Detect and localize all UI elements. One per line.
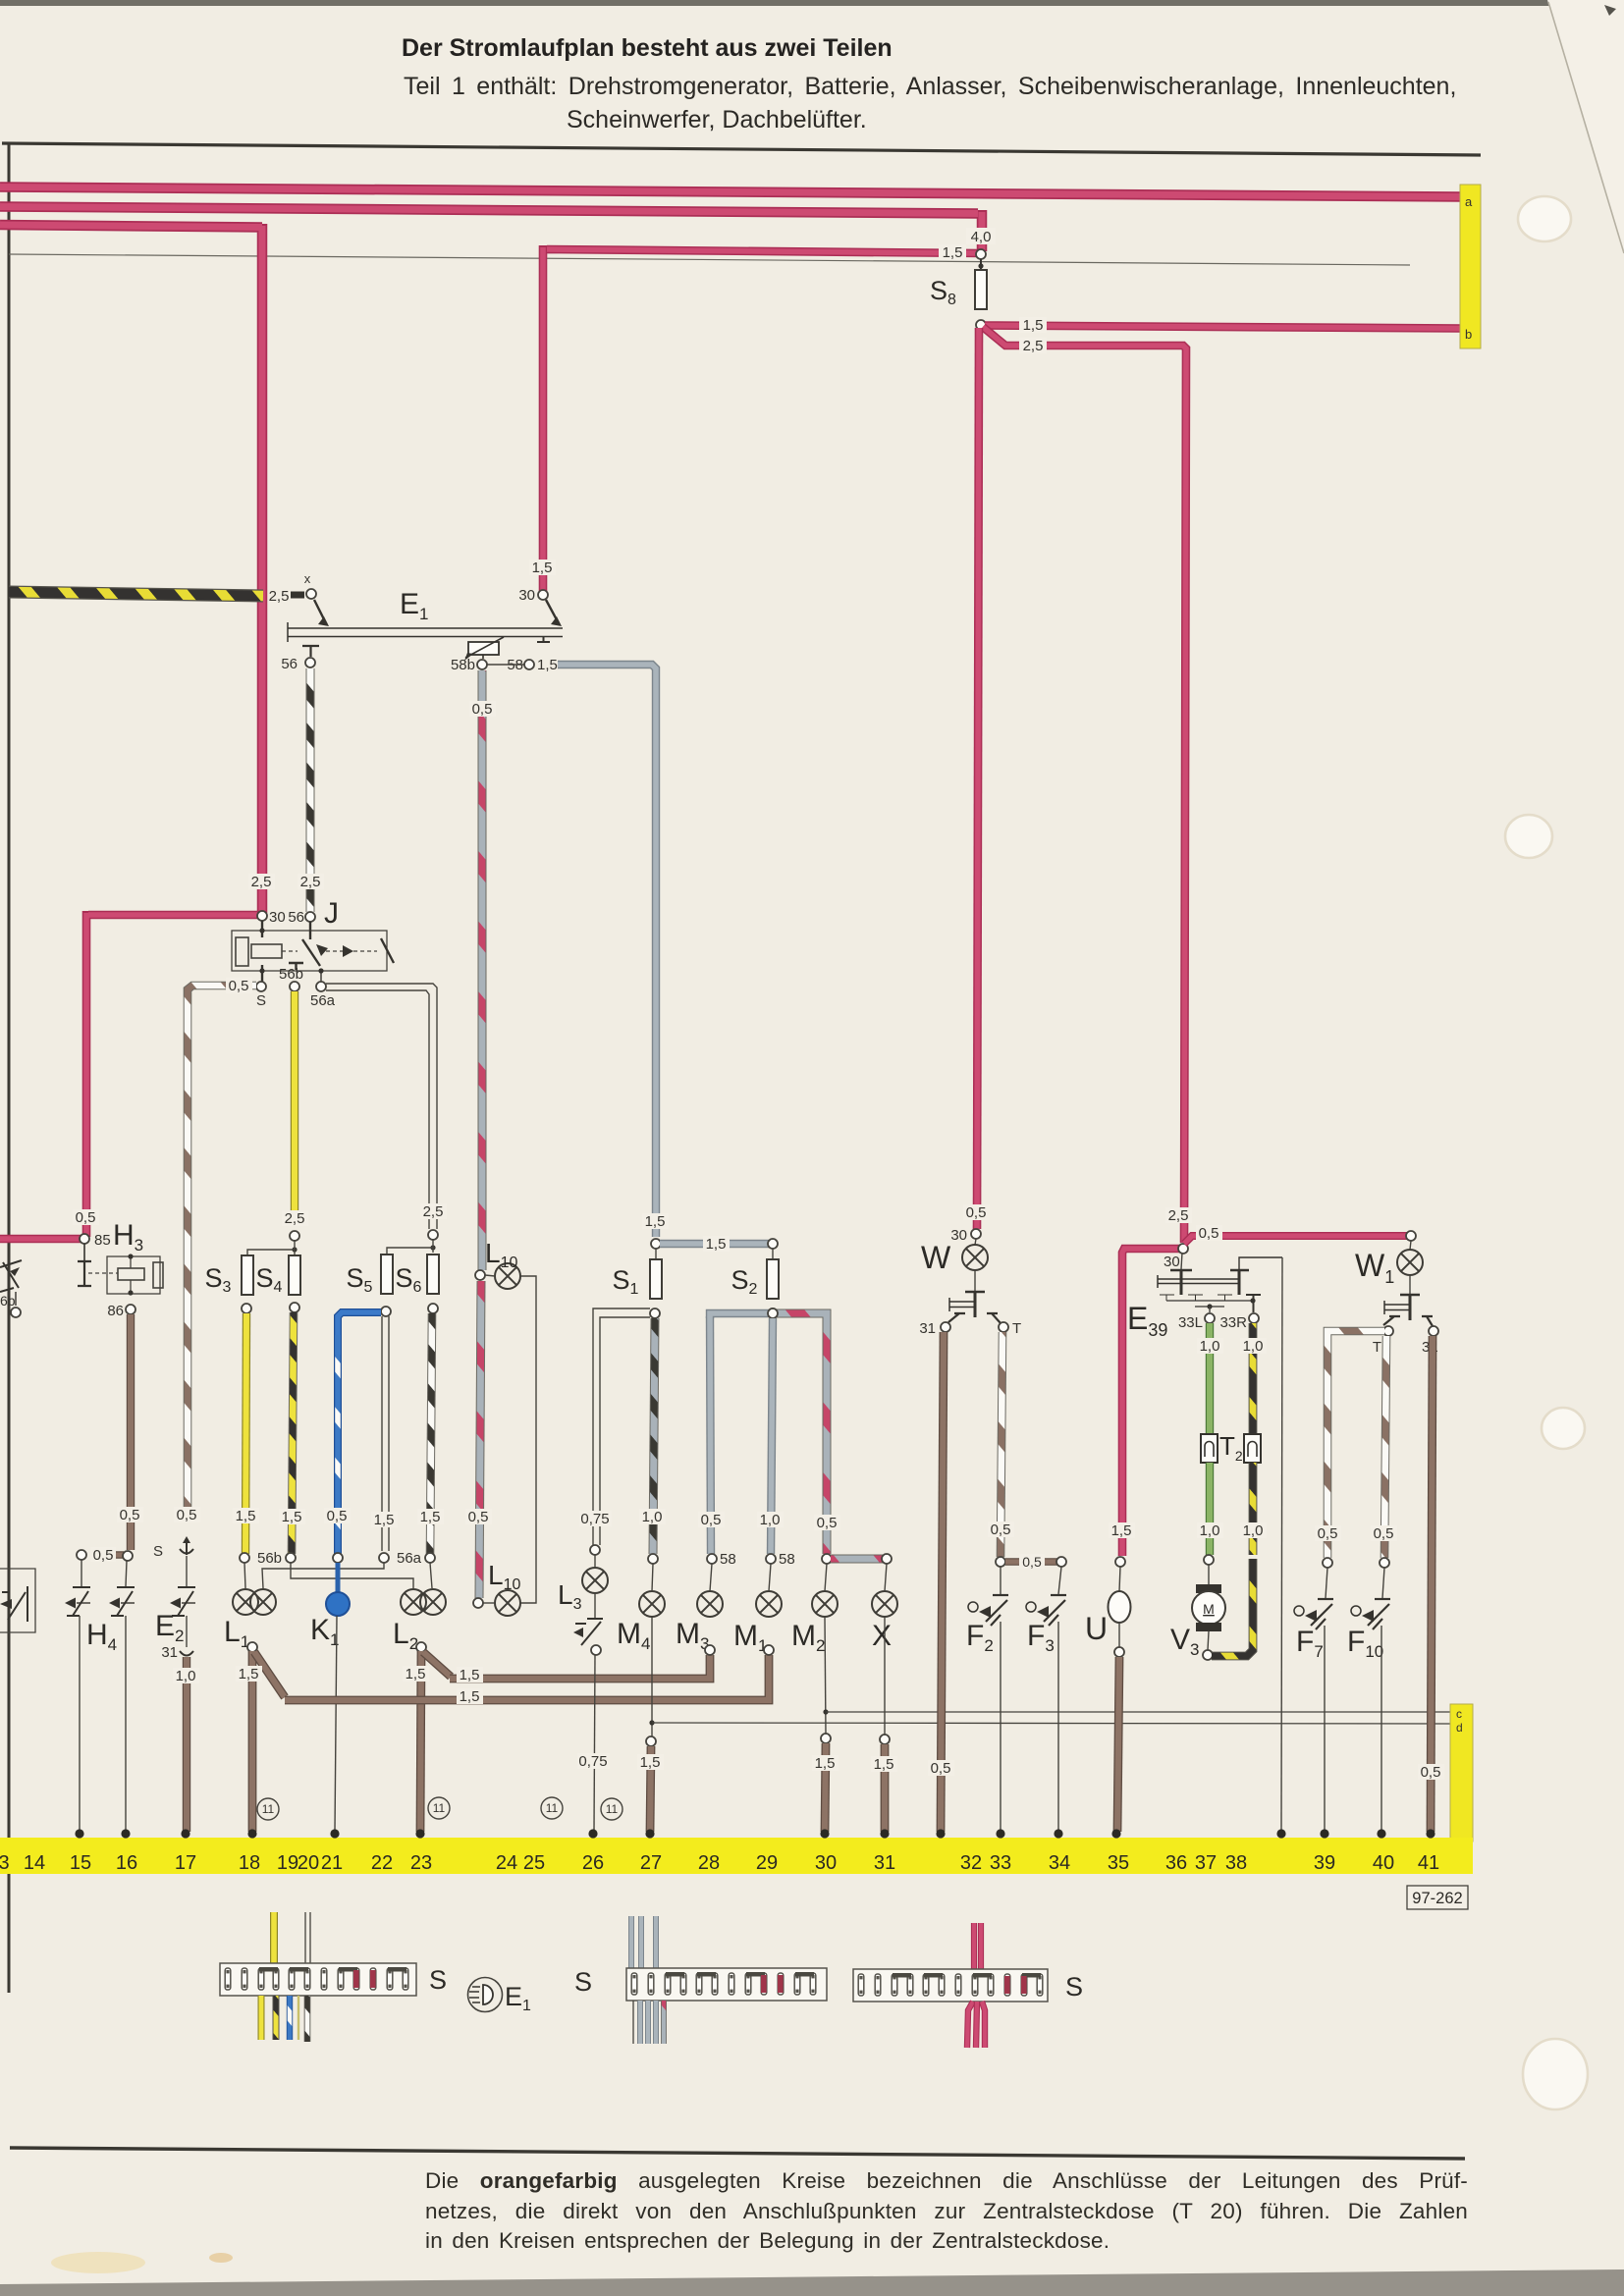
- switch W wiper park: [974, 1270, 976, 1291]
- svg-text:33L: 33L: [1178, 1314, 1203, 1331]
- lamp L10 upper: [475, 1270, 485, 1280]
- wire red 30 jog to J: [86, 911, 257, 1237]
- svg-text:S: S: [1065, 1972, 1083, 2002]
- contact 31 of E2: [186, 1616, 188, 1647]
- svg-text:56b: 56b: [257, 1550, 282, 1567]
- wire brown L1 slant to M1 line: [254, 1652, 285, 1697]
- svg-text:0,5: 0,5: [1022, 1554, 1042, 1570]
- fuse S4: [289, 1255, 300, 1295]
- switch fragment at page edge lower: [0, 1569, 35, 1632]
- wire grey-black striped S1 to M4: [653, 1318, 655, 1554]
- wire grey-red striped between L10s: [479, 1281, 481, 1598]
- bus bar yellow: [0, 1838, 1473, 1874]
- circled 11 markers: [257, 1798, 279, 1820]
- wire yellow-black striped below S4: [292, 1312, 294, 1554]
- svg-text:2,5: 2,5: [285, 1210, 305, 1227]
- wire brown L2 to rail 23: [420, 1651, 421, 1832]
- wire black-white striped 56 down to J: [306, 668, 315, 912]
- svg-text:17: 17: [175, 1852, 196, 1874]
- node 85 of H3: [80, 1234, 89, 1244]
- node above F2: [996, 1557, 1005, 1567]
- switch below L3: [594, 1593, 596, 1618]
- svg-text:U: U: [1085, 1611, 1108, 1646]
- terminal T of W1: [1383, 1326, 1393, 1336]
- node above F10: [1380, 1558, 1389, 1568]
- svg-text:6b: 6b: [0, 1293, 16, 1308]
- svg-text:32: 32: [960, 1852, 982, 1874]
- wire red bus B: [0, 207, 982, 252]
- node below X: [880, 1735, 890, 1744]
- wire thin K1 to rail 21: [335, 1616, 337, 1832]
- switch H4 right contact: [126, 1561, 127, 1586]
- svg-text:58: 58: [720, 1551, 736, 1568]
- label 0,75 above L3: [579, 1511, 612, 1527]
- node above F3: [1056, 1557, 1066, 1567]
- svg-text:14: 14: [24, 1852, 45, 1874]
- wire grey-red striped bar to M2: [777, 1313, 827, 1554]
- label 1,5 at S8 left: [939, 244, 966, 261]
- svg-text:21: 21: [321, 1852, 343, 1874]
- svg-text:33: 33: [990, 1852, 1011, 1874]
- wire red 85 feed from border: [0, 1235, 81, 1244]
- wire yellow-black below connector 1: [273, 1996, 280, 2040]
- wire white loop S1 to L3: [593, 1308, 650, 1545]
- svg-text:0,5: 0,5: [966, 1204, 987, 1221]
- svg-text:0,5: 0,5: [1318, 1525, 1338, 1542]
- label 1,5 at L1: [236, 1666, 262, 1682]
- terminal 31 of W1: [1429, 1326, 1438, 1336]
- scan bottom edge: [0, 2269, 1624, 2296]
- label 1,5 below M2: [812, 1755, 839, 1772]
- contact 58: [524, 660, 534, 669]
- svg-text:0,5: 0,5: [472, 701, 493, 718]
- fuse S5: [381, 1255, 393, 1294]
- svg-text:0,5: 0,5: [1374, 1525, 1394, 1542]
- fuse S2: [767, 1259, 779, 1299]
- label 1,5 above S1: [642, 1213, 669, 1230]
- wire brown W31 to rail 32: [941, 1332, 944, 1832]
- label 1,0 above M4: [639, 1509, 666, 1525]
- svg-text:37: 37: [1195, 1852, 1217, 1874]
- terminal above M2: [822, 1554, 832, 1564]
- svg-text:38: 38: [1225, 1852, 1247, 1874]
- svg-text:1,5: 1,5: [420, 1509, 441, 1525]
- contact 58b: [477, 660, 487, 669]
- svg-text:T: T: [1012, 1320, 1021, 1337]
- svg-text:c: c: [1456, 1707, 1462, 1721]
- thin bus reference line: [9, 254, 1410, 265]
- page left border line: [8, 143, 11, 1993]
- wire thin F2 to rail 33: [1000, 1622, 1001, 1832]
- wire thin c line to block: [826, 1711, 1450, 1713]
- svg-text:0,5: 0,5: [76, 1209, 96, 1226]
- wire thin F10 to rail 40: [1380, 1626, 1382, 1832]
- node above F7: [1323, 1558, 1332, 1568]
- label 1,5 below X: [871, 1756, 897, 1773]
- motor U: [1119, 1567, 1120, 1591]
- svg-text:b: b: [1465, 327, 1472, 342]
- svg-text:1,5: 1,5: [874, 1756, 894, 1773]
- label 0,5 on W31 wire: [928, 1760, 954, 1777]
- label 1,0 above M1: [757, 1512, 784, 1528]
- switch F7: [1326, 1568, 1327, 1598]
- svg-text:30: 30: [1164, 1254, 1180, 1270]
- rheostat E1 panel dimmer: [464, 636, 550, 661]
- label 1,0 above V3: [1197, 1522, 1223, 1539]
- wire brown L1 to rail 18: [248, 1651, 257, 1832]
- wire red 2,5 branch to right column: [983, 327, 1186, 1243]
- lamp M1: [756, 1591, 782, 1617]
- wire red 1,5 to terminal b: [985, 326, 1462, 329]
- label 0,5 on 58b wire: [469, 701, 496, 718]
- wire yellow below connector 1: [258, 1996, 265, 2040]
- wire white below S5: [382, 1316, 389, 1551]
- svg-text:Scheinwerfer, Dachbelüfter.: Scheinwerfer, Dachbelüfter.: [567, 106, 867, 133]
- svg-text:27: 27: [640, 1852, 662, 1874]
- svg-text:1,5: 1,5: [374, 1512, 395, 1528]
- wire thin d line to block: [652, 1723, 1450, 1724]
- svg-text:S: S: [256, 992, 266, 1009]
- node below M3: [705, 1645, 715, 1655]
- wire pale below connector 1: [298, 1996, 299, 2040]
- wire grey S1 to S2: [660, 1240, 769, 1248]
- label 0,5 above 85: [73, 1209, 99, 1226]
- wire blue-white below connector 1: [287, 1996, 293, 2040]
- svg-text:24: 24: [496, 1852, 517, 1874]
- motor V3: [1208, 1565, 1210, 1584]
- terminal T of W: [999, 1322, 1008, 1332]
- terminal 33L: [1205, 1313, 1215, 1323]
- wire brown M2 to rail 30: [825, 1743, 826, 1832]
- label 1,5 below S4: [279, 1509, 305, 1525]
- label 1,0 on lower 33R wire: [1240, 1522, 1267, 1539]
- relay J contacts: [262, 921, 394, 982]
- node below S1: [650, 1308, 660, 1318]
- wire white 56a loop to S5/S6: [326, 984, 437, 1229]
- terminal blue K1: [333, 1553, 343, 1563]
- svg-text:30: 30: [518, 587, 535, 604]
- label 1,5 below M4: [637, 1754, 664, 1771]
- wire grey S2-left to M3: [710, 1316, 711, 1554]
- svg-text:1,0: 1,0: [1200, 1338, 1220, 1355]
- svg-text:30: 30: [815, 1852, 837, 1874]
- wire yellow into connector 1: [270, 1912, 278, 1963]
- label 0,5 above F7: [1315, 1525, 1341, 1542]
- svg-text:20: 20: [298, 1852, 319, 1874]
- wire brown M4 to rail 27: [650, 1746, 651, 1832]
- entry node S4: [290, 1231, 299, 1241]
- label 0,5 above F2: [988, 1522, 1014, 1538]
- lamp M3: [697, 1591, 723, 1617]
- wire grey bundle into connector 2: [631, 1916, 656, 1968]
- svg-text:0,5: 0,5: [1199, 1225, 1219, 1242]
- svg-text:15: 15: [70, 1852, 91, 1874]
- wire thin F3 to rail 34: [1057, 1622, 1059, 1832]
- svg-text:a: a: [1465, 194, 1473, 209]
- node below L2: [416, 1642, 426, 1652]
- wire thin S4 to L1 right: [291, 1563, 413, 1588]
- label 1,5 above U: [1109, 1522, 1135, 1539]
- svg-text:1,5: 1,5: [532, 560, 553, 576]
- label 2,5 on red J feed: [248, 874, 275, 890]
- wire thin M4 down: [651, 1617, 653, 1737]
- wire grey S2-mid to M1: [771, 1318, 773, 1554]
- switch F2: [1000, 1567, 1001, 1594]
- svg-text:56a: 56a: [397, 1550, 422, 1567]
- terminal below S4 striped: [286, 1553, 296, 1563]
- svg-text:1,5: 1,5: [282, 1509, 302, 1525]
- svg-text:56: 56: [288, 909, 304, 926]
- label 1,5 at L2: [403, 1666, 429, 1682]
- lamp M2: [812, 1591, 838, 1617]
- svg-text:58: 58: [779, 1551, 795, 1568]
- svg-text:56a: 56a: [310, 992, 336, 1009]
- label 1,0 on E2 brown: [173, 1668, 199, 1684]
- terminal 33R: [1249, 1313, 1259, 1323]
- wire thin M2 down: [825, 1617, 826, 1734]
- connector strip S middle: [626, 1968, 827, 2001]
- bottom rule: [10, 2148, 1465, 2159]
- label 1,5 below S5 white: [371, 1512, 398, 1528]
- terminal 56b fragment: [11, 1308, 21, 1317]
- label 0,5 on 86 wire: [117, 1507, 143, 1523]
- node below S3: [242, 1304, 251, 1313]
- svg-text:0,5: 0,5: [120, 1507, 140, 1523]
- switch W1 wiper park: [1409, 1275, 1411, 1294]
- svg-text:16: 16: [116, 1852, 137, 1874]
- lamp M4: [639, 1591, 665, 1617]
- terminal 56a of J: [316, 982, 326, 991]
- rail junction dots: [75, 1829, 83, 1838]
- scan corner top-right: [1547, 0, 1624, 255]
- label 0,5 above M3: [698, 1512, 725, 1528]
- node above U: [1115, 1557, 1125, 1567]
- indicator K1: [336, 1563, 341, 1592]
- wire green T2c to V3: [1206, 1463, 1214, 1555]
- label 4,0: [966, 228, 996, 245]
- svg-text:58b: 58b: [451, 657, 475, 673]
- svg-text:Der Stromlaufplan besteht aus: Der Stromlaufplan besteht aus zwei Teile…: [402, 34, 893, 62]
- svg-text:S: S: [574, 1967, 592, 1997]
- switch E39 headlight: [1181, 1253, 1182, 1269]
- svg-text:28: 28: [698, 1852, 720, 1874]
- connector strip S right: [853, 1969, 1048, 2002]
- svg-text:S: S: [429, 1965, 447, 1995]
- plate number 97-262: [1407, 1886, 1468, 1909]
- contact 30 of E1: [538, 590, 548, 600]
- connector T2c left: [1201, 1434, 1218, 1463]
- svg-text:86: 86: [107, 1303, 124, 1319]
- contact 56 of E1: [302, 646, 319, 657]
- wire black-yellow T2c down: [1249, 1463, 1258, 1555]
- wire brown W1-31 to rail 41: [1431, 1336, 1433, 1832]
- svg-text:x: x: [304, 571, 311, 586]
- fuse S3: [242, 1255, 253, 1295]
- switch E1 light switch bar: [288, 600, 563, 642]
- svg-text:31: 31: [874, 1852, 895, 1874]
- terminal 58 above M3: [707, 1554, 717, 1564]
- svg-text:1,0: 1,0: [642, 1509, 663, 1525]
- svg-text:3: 3: [0, 1852, 10, 1874]
- label 0,5 above lower L10: [465, 1509, 492, 1525]
- symbol E1 headlight: [468, 1978, 532, 2015]
- node below M1: [764, 1645, 774, 1655]
- svg-text:4,0: 4,0: [971, 229, 992, 245]
- svg-text:1,5: 1,5: [943, 244, 963, 261]
- terminal striped S6: [425, 1553, 435, 1563]
- svg-text:35: 35: [1108, 1852, 1129, 1874]
- wire brown U to rail 35: [1117, 1657, 1119, 1832]
- svg-text:1,0: 1,0: [176, 1668, 196, 1684]
- svg-text:1,5: 1,5: [645, 1213, 666, 1230]
- node X: [306, 589, 316, 599]
- wire brown E2 to rail 17: [183, 1657, 190, 1832]
- label 2,5 on branch: [1019, 338, 1047, 354]
- svg-text:26: 26: [582, 1852, 604, 1874]
- relay H3: [83, 1244, 85, 1260]
- relay J box: [232, 931, 387, 971]
- wire red E39 to U: [1122, 1249, 1184, 1556]
- wire white pair into connector 1: [304, 1912, 306, 1963]
- node below S6: [428, 1304, 438, 1313]
- label 1,5 below S6: [417, 1509, 444, 1525]
- label 0,5 on blue: [324, 1508, 351, 1524]
- svg-text:22: 22: [371, 1852, 393, 1874]
- wire black-white below connector 1: [304, 1996, 311, 2042]
- wire thin 56a to L1 right lamp: [262, 1563, 384, 1588]
- node 30 of J: [257, 911, 267, 921]
- svg-text:34: 34: [1049, 1852, 1070, 1874]
- svg-text:0,5: 0,5: [468, 1509, 489, 1525]
- wire black stub to X: [291, 592, 304, 599]
- wire black-yellow V3 loop up: [1212, 1559, 1253, 1656]
- svg-text:0,75: 0,75: [580, 1511, 609, 1527]
- terminal white 56a: [379, 1553, 389, 1563]
- switch fragment at page edge upper: [0, 1260, 22, 1306]
- terminal block a/b: [1460, 185, 1481, 348]
- wire grey from 58 down to S1/S2: [558, 665, 656, 1237]
- label 0,5 on E2 wire: [174, 1507, 200, 1523]
- node below S5: [381, 1307, 391, 1316]
- svg-text:d: d: [1456, 1721, 1463, 1735]
- svg-text:W: W: [921, 1240, 951, 1275]
- label 2,5 above S4: [282, 1210, 308, 1227]
- svg-text:1,0: 1,0: [760, 1512, 781, 1528]
- lamp L3: [590, 1545, 600, 1555]
- svg-text:1,5: 1,5: [1111, 1522, 1132, 1539]
- svg-text:1,5: 1,5: [239, 1666, 259, 1682]
- stain bottom-left: [51, 2252, 145, 2273]
- svg-text:0,5: 0,5: [701, 1512, 722, 1528]
- svg-text:1,5: 1,5: [406, 1666, 426, 1682]
- label 0,5 on W1 feed: [1196, 1225, 1222, 1242]
- wire grey-red striped from 58b down to L10: [478, 670, 487, 1270]
- title rule: [2, 143, 1481, 155]
- node above fuse S8: [976, 249, 986, 259]
- svg-text:41: 41: [1418, 1852, 1439, 1874]
- svg-text:2,5: 2,5: [251, 874, 272, 890]
- terminal 30 of W: [971, 1229, 981, 1239]
- wire brown X to rail 31: [881, 1744, 890, 1832]
- switch F3: [1058, 1567, 1061, 1594]
- terminal block c/d: [1450, 1704, 1473, 1842]
- svg-text:0,5: 0,5: [177, 1507, 197, 1523]
- scan top edge: [0, 0, 1549, 6]
- connector strip S left: [220, 1963, 416, 1996]
- wire thin X down: [884, 1617, 886, 1735]
- jog 0,5 to H4: [94, 1551, 124, 1558]
- wire red bus C: [0, 224, 262, 913]
- svg-text:1,5: 1,5: [640, 1754, 661, 1771]
- terminal S of J: [256, 982, 266, 991]
- fuse S1: [650, 1259, 662, 1299]
- svg-text:0,5: 0,5: [817, 1515, 838, 1531]
- wire thin L3 to rail 26: [594, 1655, 595, 1832]
- label 0,5 above M2: [814, 1515, 840, 1531]
- lamp L10 lower: [473, 1598, 483, 1608]
- wire yellow 56b down to S4: [291, 991, 298, 1217]
- svg-text:0,75: 0,75: [578, 1753, 607, 1770]
- svg-text:29: 29: [756, 1852, 778, 1874]
- terminal 56b yellow: [240, 1553, 249, 1563]
- svg-text:2,5: 2,5: [1168, 1207, 1189, 1224]
- wire red 0,5 to W1: [1184, 1236, 1407, 1244]
- wire brown jog F2 to F3: [1005, 1558, 1057, 1566]
- svg-text:19: 19: [277, 1852, 298, 1874]
- label 0,5 on W1-31 wire: [1418, 1764, 1444, 1781]
- label 1,5 above E1-30: [529, 560, 556, 576]
- svg-text:0,5: 0,5: [229, 978, 249, 994]
- wire red bus A to terminal a: [0, 187, 1462, 197]
- switch F10: [1382, 1568, 1384, 1598]
- wire black-yellow 33R to T2c: [1249, 1323, 1258, 1434]
- wire brown-white striped S jog: [188, 986, 256, 1512]
- svg-text:30: 30: [950, 1227, 967, 1244]
- wire yellow below S3: [245, 1313, 246, 1554]
- wire red twin into connector 3: [974, 1923, 981, 1969]
- lamp L2 twin: [401, 1589, 426, 1615]
- label 0,5 left of S: [226, 978, 252, 994]
- node below S4: [290, 1303, 299, 1312]
- svg-text:56b: 56b: [279, 966, 303, 983]
- lamp X: [872, 1591, 897, 1617]
- wire thin F7 to rail 39: [1324, 1626, 1326, 1832]
- node above V3: [1204, 1555, 1214, 1565]
- label 2,5 on 56 wire: [298, 874, 324, 890]
- wire thin S6 to L2 right: [430, 1563, 432, 1588]
- label 2,5 above E39 node: [1165, 1207, 1192, 1224]
- label 1,0 on 33R wire: [1240, 1338, 1267, 1355]
- label 1,5 between S1 S2: [703, 1236, 730, 1253]
- svg-text:85: 85: [94, 1232, 111, 1249]
- node above S2: [768, 1239, 778, 1249]
- wire red fan below connector 3: [967, 2002, 985, 2048]
- label 2,5 above S6: [420, 1203, 447, 1220]
- fuse S6: [427, 1255, 439, 1294]
- node 56 of J: [305, 912, 315, 922]
- label 1,0 on green: [1197, 1338, 1223, 1355]
- svg-text:23: 23: [410, 1852, 432, 1874]
- wire grey bar below S2: [710, 1313, 773, 1318]
- punch hole rings: [1505, 196, 1588, 2109]
- node below U: [1118, 1623, 1120, 1647]
- svg-text:31: 31: [919, 1320, 936, 1337]
- svg-text:1,5: 1,5: [1023, 317, 1044, 334]
- svg-text:2,5: 2,5: [269, 588, 290, 605]
- svg-text:1,5: 1,5: [460, 1667, 480, 1683]
- svg-text:1,5: 1,5: [706, 1236, 727, 1253]
- svg-text:0,5: 0,5: [327, 1508, 348, 1524]
